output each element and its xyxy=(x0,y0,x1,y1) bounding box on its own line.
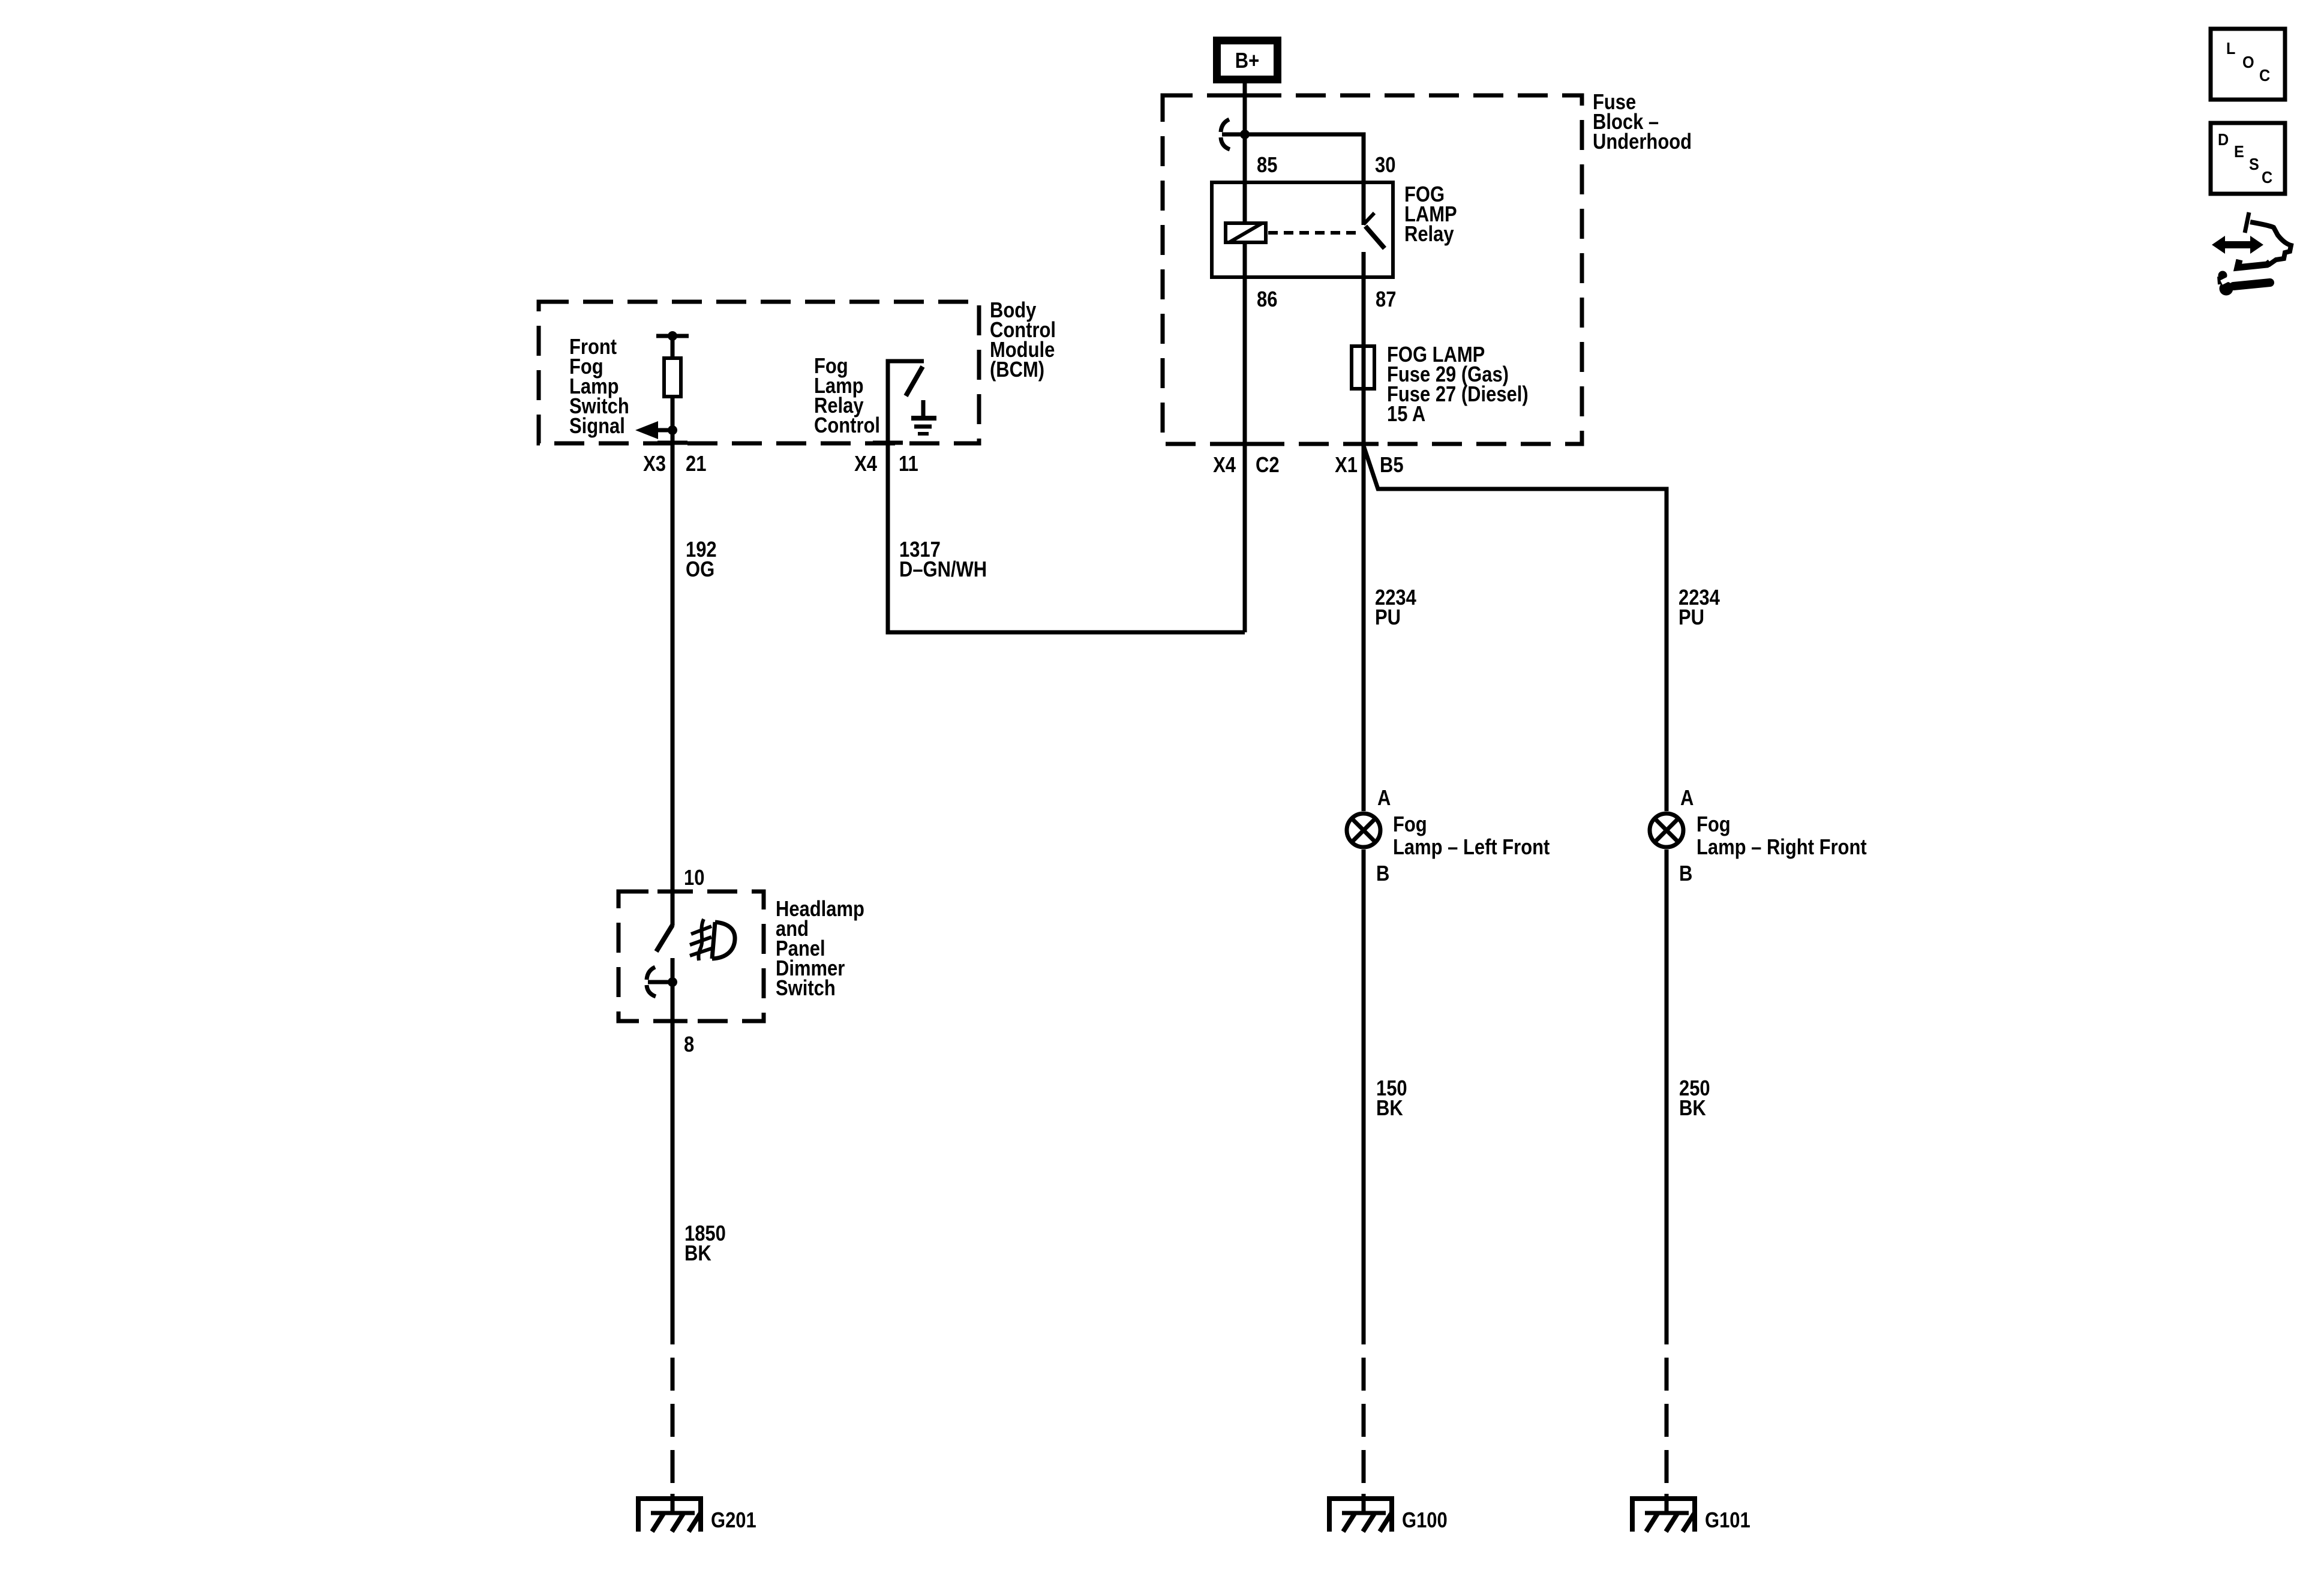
lower contact wire xyxy=(671,958,675,1344)
svg-text:L: L xyxy=(2226,39,2235,58)
fog lamp icon wavy line xyxy=(698,919,704,960)
svg-text:O: O xyxy=(2242,53,2254,72)
junction node dot xyxy=(1240,130,1250,139)
ground G100 xyxy=(1327,1494,1394,1532)
svg-text:Fog: Fog xyxy=(1697,813,1731,837)
svg-text:Signal: Signal xyxy=(569,415,625,439)
svg-text:B: B xyxy=(1679,862,1692,886)
connector pin label X4 11 xyxy=(854,452,918,476)
svg-text:Fog: Fog xyxy=(1393,813,1427,837)
wire junction to pin 30 xyxy=(1245,134,1364,225)
wire label 192 OG xyxy=(686,538,717,582)
svg-text:B5: B5 xyxy=(1380,454,1404,478)
dashed wire to G100 xyxy=(1362,1358,1366,1498)
svg-text:PU: PU xyxy=(1679,606,1704,630)
tick wire crossing BCM bottom at X4 xyxy=(873,441,903,445)
svg-text:E: E xyxy=(2234,142,2244,161)
svg-text:11: 11 xyxy=(899,452,918,476)
wire right lamp B down xyxy=(1665,849,1669,1344)
svg-text:Lamp – Left Front: Lamp – Left Front xyxy=(1393,836,1550,860)
svg-text:X1: X1 xyxy=(1335,454,1358,478)
wrench icon xyxy=(2218,271,2271,296)
fog lamp icon beams xyxy=(690,926,711,956)
fuse F29/F27 FOG LAMP 15A xyxy=(1352,346,1374,389)
wire X3 21 down to dimmer switch xyxy=(671,443,675,891)
junction dot at arrow xyxy=(668,425,677,435)
svg-text:X4: X4 xyxy=(1213,454,1236,478)
front fog lamp switch signal label xyxy=(569,335,629,439)
power symbol B+ xyxy=(1217,41,1278,80)
wire label 1850 BK xyxy=(684,1222,726,1266)
svg-text:C2: C2 xyxy=(1256,454,1280,478)
svg-text:85: 85 xyxy=(1257,154,1277,178)
wire label 2234 PU right xyxy=(1679,586,1720,630)
lamp fog left front xyxy=(1347,813,1380,847)
dimmer switch dashed box xyxy=(618,891,764,1021)
svg-text:Switch: Switch xyxy=(776,977,836,1001)
dimmer switch blade xyxy=(656,925,672,951)
svg-text:C: C xyxy=(2262,168,2272,187)
svg-text:86: 86 xyxy=(1257,288,1277,312)
wire label 250 BK xyxy=(1679,1077,1710,1121)
tick wire crossing dimmer bottom xyxy=(657,1019,687,1023)
fog lamp icon lens xyxy=(712,922,735,959)
wire resistor down xyxy=(671,397,675,443)
svg-text:B: B xyxy=(1376,862,1389,886)
svg-text:Control: Control xyxy=(814,414,880,438)
dimmer switch label xyxy=(776,897,864,1001)
svg-text:PU: PU xyxy=(1375,606,1401,630)
svg-text:OG: OG xyxy=(686,558,714,582)
svg-text:G101: G101 xyxy=(1705,1509,1750,1533)
svg-text:D–GN/WH: D–GN/WH xyxy=(899,558,987,582)
svg-text:BK: BK xyxy=(684,1242,711,1266)
relay switch hinge tick xyxy=(1364,213,1374,224)
wire label 2234 PU left xyxy=(1375,586,1416,630)
svg-text:15 A: 15 A xyxy=(1387,403,1425,427)
relay coil xyxy=(1226,223,1266,242)
DESC legend box xyxy=(2211,123,2285,194)
BCM driver switch xyxy=(888,361,924,443)
wire left lamp B down xyxy=(1362,849,1366,1344)
svg-text:G201: G201 xyxy=(711,1509,756,1533)
ground G201 xyxy=(636,1494,703,1532)
connector symbol at switch contact xyxy=(647,967,672,996)
svg-text:C: C xyxy=(2259,66,2270,85)
connector symbol at junction xyxy=(1221,119,1245,149)
wire into switch xyxy=(671,891,675,926)
lamp label right xyxy=(1697,813,1867,860)
tick wire crossing fuse box bottom at B5 xyxy=(1349,442,1379,446)
connector pin label X4 C2 xyxy=(1213,454,1279,478)
tick wire crossing dimmer top xyxy=(657,890,687,894)
ground G101 xyxy=(1630,1494,1697,1532)
svg-text:G100: G100 xyxy=(1402,1509,1448,1533)
svg-text:BK: BK xyxy=(1679,1097,1706,1121)
svg-text:30: 30 xyxy=(1375,154,1395,178)
fuse block label xyxy=(1593,91,1692,154)
svg-text:21: 21 xyxy=(686,452,706,476)
wire BCM relay control link xyxy=(888,443,1245,632)
BCM internal ground xyxy=(911,400,936,434)
wire junction down to relay coil pin 85 xyxy=(1243,134,1247,223)
dashed wire to G201 xyxy=(671,1358,675,1498)
wire bar to resistor xyxy=(671,336,675,358)
BCM label xyxy=(990,299,1056,382)
BCM dashed box xyxy=(539,302,979,443)
resistor R fog lamp switch signal xyxy=(664,358,681,397)
signal arrow left xyxy=(635,421,672,439)
svg-text:87: 87 xyxy=(1376,288,1396,312)
wire label 150 BK xyxy=(1376,1077,1407,1121)
svg-text:B+: B+ xyxy=(1235,49,1259,73)
node dot xyxy=(668,331,677,341)
junction dot at contact xyxy=(668,977,677,987)
tick wire crossing fuse box bottom at C2 xyxy=(1230,442,1260,446)
svg-text:8: 8 xyxy=(684,1033,694,1057)
fog lamp relay control label xyxy=(814,355,880,438)
connector pin label X1 B5 xyxy=(1335,454,1403,478)
LOC legend box xyxy=(2211,29,2285,100)
svg-text:Underhood: Underhood xyxy=(1593,130,1692,154)
lamp fog right front xyxy=(1650,813,1683,847)
fuse label xyxy=(1387,343,1529,427)
wire branch B5 diagonal xyxy=(1364,446,1667,811)
svg-text:BK: BK xyxy=(1376,1097,1403,1121)
svg-text:X3: X3 xyxy=(643,452,666,476)
relay actuation dashed link xyxy=(1268,231,1359,235)
wire label 1317 D-GN/WH xyxy=(899,538,987,582)
fuse block dashed box xyxy=(1163,95,1582,444)
wire coil pin 86 down out of fuse block xyxy=(1243,242,1247,632)
svg-text:10: 10 xyxy=(684,866,704,890)
svg-text:S: S xyxy=(2249,155,2259,174)
svg-text:Lamp – Right Front: Lamp – Right Front xyxy=(1697,836,1867,860)
wire B+ down to junction xyxy=(1243,83,1247,134)
svg-text:Relay: Relay xyxy=(1404,223,1454,247)
wire pin 87 down through fuse to B5 and left fog lamp xyxy=(1362,252,1366,811)
lamp label left xyxy=(1393,813,1550,860)
node terminal bar xyxy=(656,334,689,338)
direction arrows icon xyxy=(2212,212,2291,268)
dashed wire to G101 xyxy=(1665,1358,1669,1498)
svg-text:A: A xyxy=(1377,786,1391,810)
tick wire crossing fuse box top edge xyxy=(1230,94,1260,98)
svg-text:A: A xyxy=(1680,786,1694,810)
tick wire crossing BCM bottom at X3 xyxy=(657,441,687,445)
connector pin label X3 21 xyxy=(643,452,706,476)
svg-text:X4: X4 xyxy=(854,452,877,476)
svg-text:D: D xyxy=(2218,130,2229,149)
relay switch blade xyxy=(1365,226,1385,248)
relay label xyxy=(1404,183,1457,247)
svg-text:(BCM): (BCM) xyxy=(990,358,1044,382)
relay box U: FOG LAMP Relay xyxy=(1212,182,1393,277)
